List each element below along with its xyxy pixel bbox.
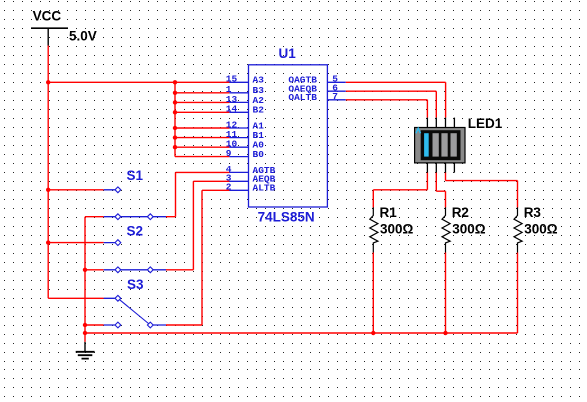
svg-text:U1: U1: [279, 46, 297, 61]
svg-text:7: 7: [332, 91, 338, 102]
svg-text:LED1: LED1: [468, 116, 503, 131]
svg-text:5.0V: 5.0V: [69, 29, 97, 44]
svg-text:300Ω: 300Ω: [452, 222, 486, 237]
svg-text:R3: R3: [524, 205, 542, 220]
svg-text:S3: S3: [127, 277, 144, 292]
svg-text:300Ω: 300Ω: [380, 222, 414, 237]
svg-text:300Ω: 300Ω: [524, 222, 558, 237]
svg-text:VCC: VCC: [33, 9, 62, 24]
svg-text:B2: B2: [253, 105, 265, 116]
svg-text:OALTB: OALTB: [288, 92, 317, 103]
svg-text:R1: R1: [380, 205, 398, 220]
svg-text:S2: S2: [127, 224, 144, 239]
svg-text:2: 2: [226, 182, 232, 193]
svg-text:15: 15: [226, 74, 238, 85]
svg-text:14: 14: [226, 104, 238, 115]
svg-text:R2: R2: [452, 205, 469, 220]
svg-text:S1: S1: [127, 168, 144, 183]
svg-text:A3: A3: [253, 75, 265, 86]
svg-text:B0: B0: [253, 149, 265, 160]
svg-text:74LS85N: 74LS85N: [258, 210, 315, 225]
svg-text:9: 9: [226, 148, 232, 159]
svg-text:ALTB: ALTB: [253, 183, 276, 194]
